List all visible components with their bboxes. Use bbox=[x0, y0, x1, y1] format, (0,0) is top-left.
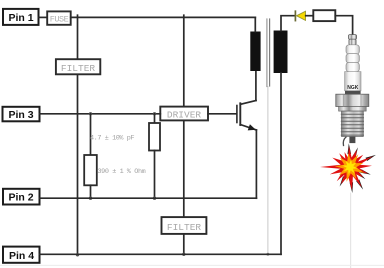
wire spark to ground faint bbox=[350, 193, 352, 268]
pin terminal Pin 3 bbox=[3, 107, 40, 122]
node junction on Pin 4 rail bbox=[182, 253, 185, 256]
node junction capacitor top bbox=[153, 112, 156, 115]
transformer T1 core bbox=[267, 19, 270, 87]
node junction core ground on Pin 4 rail bbox=[266, 253, 269, 256]
svg-text:Pin 3: Pin 3 bbox=[8, 109, 33, 121]
svg-text:Pin 1: Pin 1 bbox=[8, 12, 33, 24]
svg-text:Pin 2: Pin 2 bbox=[8, 192, 33, 204]
wire capacitor top lead bbox=[154, 114, 156, 123]
wire vertical from top rail to FILTER bbox=[77, 15, 79, 59]
filter block FILTER (top) bbox=[56, 59, 100, 74]
ground reference edge bbox=[0, 264, 384, 266]
wire primary top to rail bbox=[254, 17, 256, 31]
node junction capacitor bottom bbox=[153, 197, 156, 200]
resistor R1 bbox=[84, 155, 97, 185]
wire DRIVER output to transistor base bbox=[208, 113, 236, 115]
wire diode to resistor bbox=[306, 15, 314, 17]
pin terminal Pin 1 bbox=[3, 9, 39, 25]
wire bbox=[39, 16, 48, 18]
resistor R2 bbox=[313, 10, 335, 21]
wire vertical FILTER down to Pin 4 rail bbox=[77, 74, 79, 255]
wire resistor bottom lead bbox=[90, 185, 92, 198]
pin terminal Pin 2 bbox=[3, 189, 40, 205]
spark bbox=[320, 143, 376, 193]
wire Pin 4 row bbox=[40, 253, 282, 255]
svg-text:FILTER: FILTER bbox=[167, 222, 202, 233]
wire Pin 2 row to emitter bbox=[40, 197, 257, 199]
wire core ground line to Pin 4 rail bbox=[267, 87, 269, 255]
capacitor C1 bbox=[149, 123, 160, 151]
wire vertical from top rail to DRIVER bbox=[183, 15, 185, 106]
transformer T1 secondary winding bbox=[274, 31, 288, 74]
svg-text:FILTER: FILTER bbox=[61, 63, 96, 74]
wire Pin 3 row bbox=[40, 113, 161, 115]
fuse FUSE bbox=[47, 11, 70, 24]
node junction on Pin 4 rail bbox=[76, 253, 79, 256]
spark plug bbox=[336, 35, 369, 146]
pin terminal Pin 4 bbox=[3, 247, 40, 263]
wire top rail bbox=[71, 16, 256, 18]
svg-text:390 ± 1 % Ohm: 390 ± 1 % Ohm bbox=[98, 168, 146, 176]
wire resistor top lead bbox=[90, 114, 92, 155]
wire collector to primary bbox=[255, 71, 257, 101]
wire vertical DRIVER to FILTER (bottom) bbox=[183, 120, 185, 217]
wire capacitor bottom lead bbox=[154, 151, 156, 199]
svg-text:NGK: NGK bbox=[347, 85, 359, 91]
wire emitter down to Pin 2 row bbox=[255, 130, 257, 198]
svg-text:Pin 4: Pin 4 bbox=[9, 250, 34, 262]
transistor Q1 bbox=[237, 101, 257, 131]
node junction resistor bottom bbox=[89, 197, 92, 200]
wire secondary top to diode bbox=[281, 16, 295, 31]
svg-text:FUSE: FUSE bbox=[50, 14, 69, 24]
driver block DRIVER bbox=[160, 107, 208, 121]
wire vertical FILTER (bottom) to Pin 4 rail bbox=[183, 234, 185, 254]
transformer T1 primary winding bbox=[250, 32, 260, 72]
wire secondary bottom to Pin 4 rail bbox=[280, 73, 282, 254]
svg-text:4.7 ± 10% pF: 4.7 ± 10% pF bbox=[90, 135, 134, 143]
node junction resistor top bbox=[89, 112, 92, 115]
wire resistor to spark plug bbox=[335, 16, 352, 34]
svg-text:DRIVER: DRIVER bbox=[167, 110, 202, 121]
filter block FILTER (bottom) bbox=[162, 217, 207, 234]
diode D1 bbox=[295, 11, 305, 20]
